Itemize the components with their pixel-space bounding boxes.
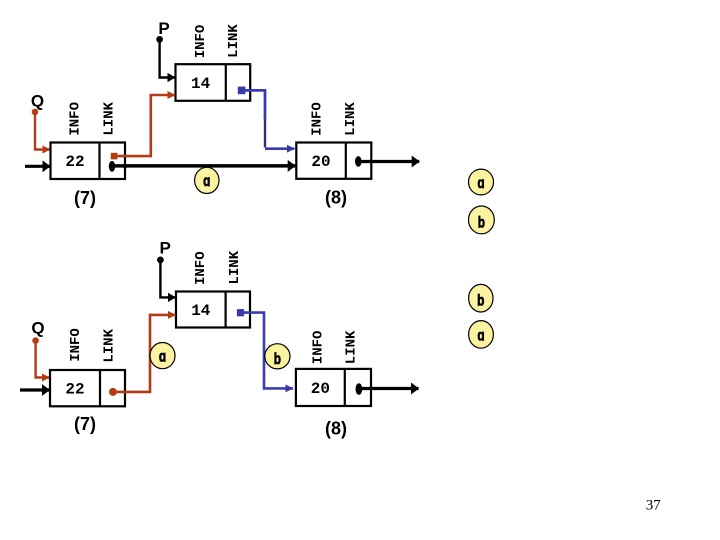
- svg-text:22: 22: [65, 153, 84, 171]
- svg-text:22: 22: [65, 381, 84, 399]
- svg-text:37: 37: [646, 498, 662, 514]
- wire: P to node 14 (bottom): [160, 260, 175, 298]
- yellow label b (right column, row 3): [469, 284, 493, 312]
- link origin square of node 14 (top, blue): [238, 87, 246, 95]
- node 20 box (bottom): [296, 369, 371, 406]
- wire: node 22 link to node 14 (top, dark red): [116, 95, 175, 156]
- svg-text:14: 14: [191, 75, 211, 93]
- yellow label a (right column, row 4): [469, 321, 494, 349]
- svg-text:P: P: [160, 239, 171, 258]
- svg-text:20: 20: [311, 153, 330, 171]
- node 14 box (bottom): [176, 292, 250, 328]
- link dot of node 22 (top): [109, 161, 115, 172]
- svg-text:INFO: INFO: [193, 25, 209, 59]
- svg-text:LINK: LINK: [227, 250, 243, 284]
- link dot of node 22 (bottom, dark red): [109, 388, 117, 396]
- svg-text:Q: Q: [31, 92, 44, 111]
- node 14 box (top): [176, 64, 251, 101]
- node 22 divider (bottom): [99, 370, 101, 406]
- svg-text:ɑ: ɑ: [477, 326, 484, 344]
- node 22 box (bottom): [50, 370, 125, 406]
- svg-text:(7): (7): [74, 414, 96, 434]
- wire: Q to node 22 (bottom): [36, 341, 50, 378]
- yellow label a on dark red wire (bottom): [150, 343, 175, 369]
- svg-text:b: b: [274, 349, 282, 367]
- exit arrow from node 20 (top): [358, 160, 419, 163]
- pointer dot Q (top): [32, 109, 39, 116]
- link origin square of node 22 (top, dark red): [111, 153, 118, 160]
- yellow label a on long arrow (top): [195, 167, 219, 193]
- wire: P to node 14 (top): [160, 39, 175, 77]
- node 22 divider (top): [98, 143, 100, 180]
- wire: Q to node 22 (top): [35, 112, 50, 150]
- pointer dot P (top): [156, 36, 163, 43]
- svg-text:(8): (8): [325, 188, 347, 208]
- pointer dot Q (bottom): [32, 337, 39, 344]
- node 20 divider (bottom): [344, 369, 346, 406]
- svg-text:b: b: [477, 291, 485, 309]
- yellow label a (right column, row 1): [469, 169, 494, 195]
- svg-text:ɑ: ɑ: [159, 347, 166, 365]
- svg-text:LINK: LINK: [344, 330, 360, 364]
- svg-text:LINK: LINK: [102, 328, 118, 362]
- node 14 divider (top): [225, 64, 227, 101]
- svg-text:INFO: INFO: [310, 331, 326, 365]
- exit arrow from node 20 (bottom): [359, 387, 419, 390]
- svg-text:20: 20: [311, 380, 330, 398]
- pointer dot P (bottom): [157, 257, 164, 264]
- svg-text:Q: Q: [31, 319, 44, 338]
- yellow label b (right column, row 2): [469, 206, 495, 234]
- link dot of node 20 (bottom): [356, 383, 363, 395]
- wire: node 22 link to node 20, long arrow (top): [112, 164, 295, 168]
- node 22 box (top): [51, 143, 126, 180]
- svg-text:P: P: [158, 19, 169, 38]
- link origin square of node 14 (bottom, blue): [237, 309, 244, 316]
- svg-text:INFO: INFO: [310, 102, 326, 136]
- svg-text:(8): (8): [325, 419, 347, 439]
- entry arrow into node 22 (top): [25, 165, 50, 168]
- wire: node 22 link to node 14 (bottom, dark red): [116, 315, 176, 392]
- svg-text:LINK: LINK: [226, 24, 242, 58]
- entry arrow into node 22 (bottom): [20, 388, 50, 391]
- node 14 divider (bottom): [225, 292, 227, 328]
- svg-text:ɑ: ɑ: [203, 171, 210, 189]
- svg-text:INFO: INFO: [68, 102, 84, 136]
- node 20 divider (top): [345, 143, 347, 179]
- node 20 box (top): [296, 143, 371, 179]
- svg-text:INFO: INFO: [68, 328, 84, 362]
- svg-text:14: 14: [191, 302, 211, 320]
- link dot of node 20 (top): [355, 156, 362, 167]
- wire: node 14 link to node 20 (top, blue): [243, 90, 265, 119]
- svg-text:LINK: LINK: [102, 101, 118, 135]
- svg-text:INFO: INFO: [193, 251, 209, 285]
- svg-text:(7): (7): [74, 188, 96, 208]
- svg-text:ɑ: ɑ: [477, 173, 484, 191]
- wire: node 14 link to node 20 (bottom, blue): [242, 313, 293, 389]
- svg-text:b: b: [478, 213, 486, 231]
- yellow label b on blue wire (bottom): [265, 344, 290, 369]
- svg-text:LINK: LINK: [343, 102, 359, 136]
